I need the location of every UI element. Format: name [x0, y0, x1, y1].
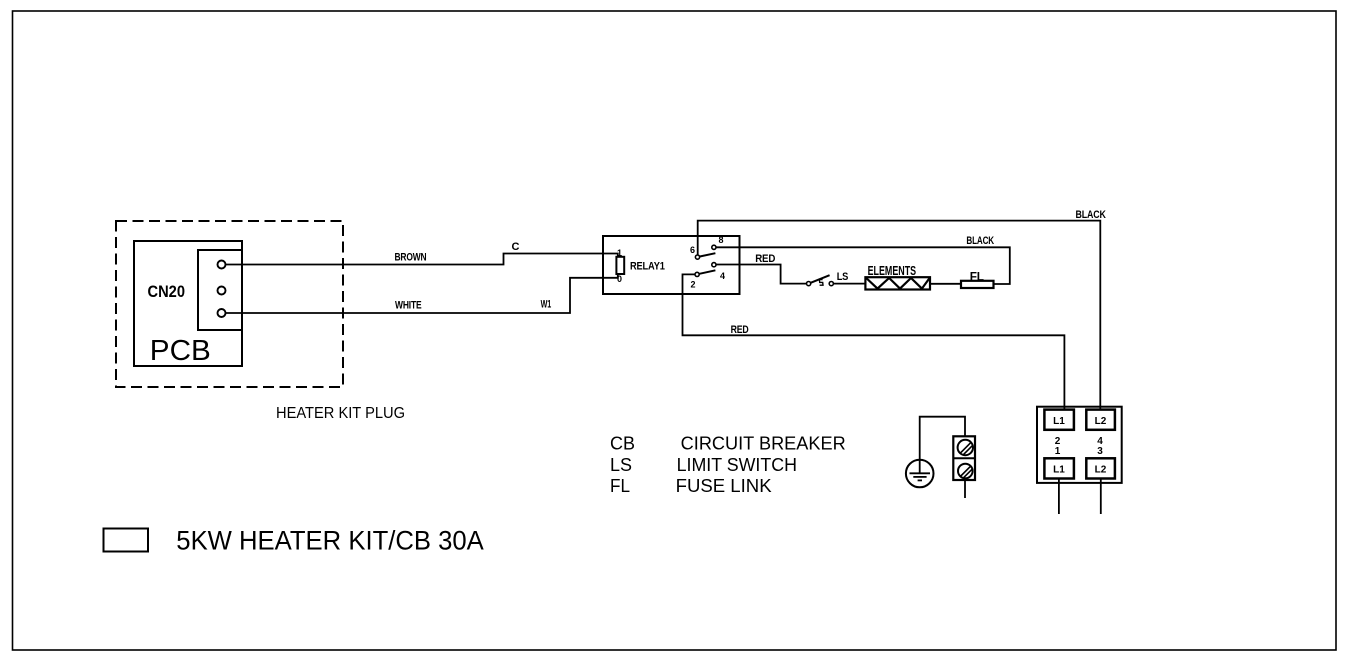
terminal bottom wire L1 — [1058, 479, 1060, 515]
svg-text:CIRCUIT BREAKER: CIRCUIT BREAKER — [681, 434, 846, 454]
svg-text:LS: LS — [610, 455, 632, 475]
terminal bottom wire L2 — [1100, 479, 1102, 515]
heater elements — [865, 263, 961, 290]
relay contact 6-8 — [690, 235, 724, 259]
ground wire to screw terminal — [920, 417, 965, 460]
heater kit plug dashed enclosure — [116, 221, 343, 387]
svg-text:8: 8 — [718, 235, 723, 245]
wire BLACK top: relay pin 6 up, across, down to terminal L2 — [698, 209, 1106, 410]
connector pin 3 — [218, 309, 226, 317]
svg-text:WHITE: WHITE — [395, 300, 422, 312]
svg-text:LIMIT SWITCH: LIMIT SWITCH — [677, 455, 797, 475]
terminal L2 top — [1086, 410, 1115, 430]
fuse link FL — [961, 272, 994, 288]
svg-text:L1: L1 — [1053, 416, 1065, 427]
svg-text:HEATER KIT PLUG: HEATER KIT PLUG — [276, 405, 405, 422]
svg-text:BLACK: BLACK — [1076, 209, 1106, 221]
wire RED from relay pin 2 down and across to terminal L1 — [683, 274, 1065, 409]
svg-text:LS: LS — [837, 271, 849, 283]
svg-text:FL: FL — [610, 476, 630, 496]
svg-text:L1: L1 — [1053, 465, 1065, 476]
screw terminal block — [953, 436, 975, 498]
svg-text:2: 2 — [690, 280, 695, 290]
svg-text:4: 4 — [720, 271, 725, 281]
svg-text:BLACK: BLACK — [966, 235, 994, 247]
svg-text:L2: L2 — [1095, 465, 1107, 476]
ground symbol — [906, 460, 934, 488]
svg-text:5KW HEATER KIT/CB 30A: 5KW HEATER KIT/CB 30A — [176, 526, 484, 556]
svg-text:1: 1 — [1055, 446, 1061, 457]
connector pin 2 — [218, 287, 226, 295]
wire BROWN from pin 1 to relay coil pin 1 — [226, 241, 618, 265]
terminal L1 top — [1044, 410, 1074, 430]
svg-text:RED: RED — [755, 253, 775, 265]
svg-text:FL: FL — [970, 272, 984, 284]
terminal block L1/L2 outer — [1037, 407, 1122, 483]
limit switch LS — [807, 271, 866, 286]
terminal L2 bottom — [1086, 458, 1115, 478]
svg-text:3: 3 — [1097, 446, 1103, 457]
svg-text:BROWN: BROWN — [395, 252, 427, 264]
relay contact 2-4 — [690, 263, 725, 290]
svg-text:6: 6 — [690, 245, 695, 255]
wire RED from relay pin 4 to limit switch — [716, 253, 807, 284]
svg-text:RELAY1: RELAY1 — [630, 261, 665, 273]
wire WHITE from pin 3 to relay coil pin 0 — [226, 274, 618, 313]
svg-text:PCB: PCB — [150, 335, 211, 367]
connector CN20 — [148, 250, 243, 330]
svg-text:CN20: CN20 — [148, 283, 186, 301]
svg-text:0: 0 — [617, 274, 622, 284]
svg-text:C: C — [512, 241, 520, 253]
svg-text:FUSE LINK: FUSE LINK — [676, 476, 772, 496]
terminal L1 bottom — [1044, 458, 1074, 478]
PCB board box — [134, 241, 242, 367]
wire BLACK mid: relay pin 8 right then down to fuse link — [716, 235, 1010, 284]
svg-text:L2: L2 — [1095, 416, 1107, 427]
svg-text:ELEMENTS: ELEMENTS — [868, 263, 917, 278]
legend CB — [610, 434, 846, 454]
legend LS — [610, 455, 797, 475]
svg-text:CB: CB — [610, 434, 635, 454]
svg-text:W1: W1 — [541, 299, 552, 311]
relay coil — [616, 248, 624, 284]
connector pin 1 — [218, 261, 226, 269]
legend FL — [610, 476, 772, 496]
title reference box — [104, 529, 149, 552]
svg-text:1: 1 — [617, 248, 622, 258]
relay U1 RELAY1 box — [603, 236, 740, 294]
svg-text:RED: RED — [731, 324, 749, 336]
terminal pin numbers 2 1 4 3 — [1055, 436, 1104, 457]
